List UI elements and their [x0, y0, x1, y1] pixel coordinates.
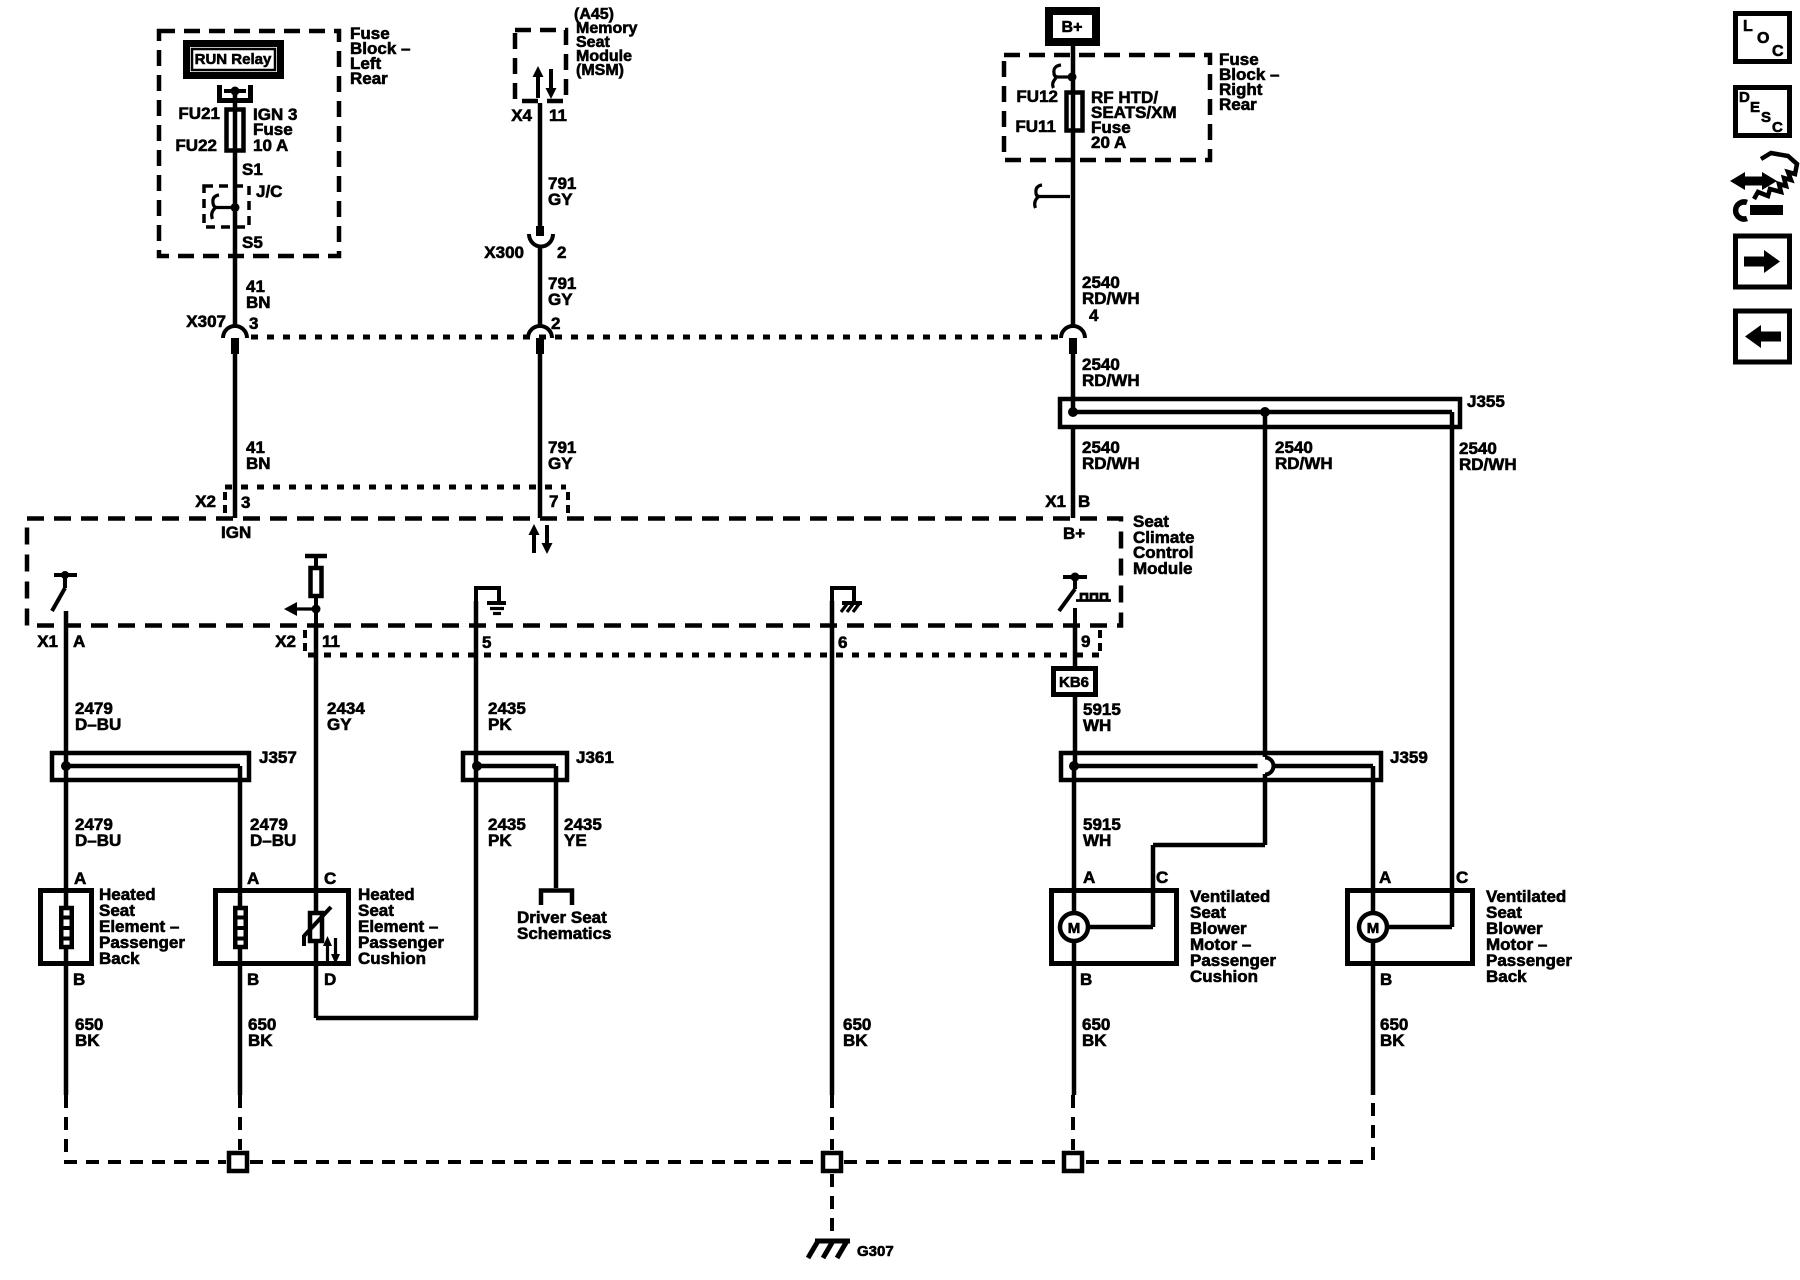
svg-text:Rear: Rear: [1219, 95, 1257, 114]
label IGN: [221, 523, 251, 542]
svg-text:D–BU: D–BU: [250, 831, 296, 850]
wire 650 BK element1: [75, 1015, 103, 1050]
svg-text:2: 2: [551, 314, 560, 333]
svg-text:J361: J361: [576, 748, 614, 767]
svg-text:9: 9: [1081, 632, 1090, 651]
nav box DESC: [1736, 88, 1790, 137]
svg-text:X1: X1: [1045, 492, 1066, 511]
wire 5915 WH lower (to motor A): [1074, 766, 1121, 912]
svg-text:O: O: [1757, 30, 1769, 47]
wire MSM X4-11: [511, 103, 576, 228]
wire 2540 RD/WH to J355: [1073, 352, 1140, 412]
relay output KB6 box: [1054, 626, 1096, 695]
svg-text:S1: S1: [242, 160, 263, 179]
wire S1 segment: [235, 152, 263, 256]
ventilated seat blower motor - passenger cushion (box): [1052, 891, 1177, 964]
ground bus dashed: motor2 drop: [1371, 1095, 1375, 1160]
svg-text:D: D: [324, 970, 336, 989]
svg-text:IGN: IGN: [221, 523, 251, 542]
svg-text:WH: WH: [1083, 716, 1111, 735]
label FU11: [1015, 117, 1056, 136]
svg-text:3: 3: [249, 314, 258, 333]
wire 2479 D-BU left (below J357): [75, 815, 121, 850]
label: Ventilated Seat Blower Motor - Passenger Cushion: [1190, 887, 1276, 986]
label FU21: [178, 104, 220, 123]
svg-text:J357: J357: [259, 748, 297, 767]
svg-text:A: A: [73, 632, 85, 651]
svg-text:GY: GY: [548, 454, 573, 473]
module internal ground at pin 5: [476, 588, 506, 626]
svg-text:B: B: [1380, 970, 1392, 989]
connector X2 pin 3 (module): [195, 487, 568, 514]
fuse block - left rear (dashed box): [159, 31, 339, 256]
svg-text:Cushion: Cushion: [1190, 967, 1258, 986]
wire element2 B lead: [238, 947, 243, 1095]
svg-text:FU21: FU21: [178, 104, 220, 123]
label FU22: [175, 136, 217, 155]
svg-text:4: 4: [1089, 306, 1099, 325]
wire 650 BK element2: [248, 1015, 276, 1050]
module pin row: X1 A: [37, 632, 85, 651]
nav box forward arrow: [1736, 236, 1790, 287]
lower hook terminal: [1035, 185, 1070, 208]
wire 650 BK motor1: [1074, 966, 1110, 1095]
wire 2435 YE to driver seat: [556, 766, 602, 888]
svg-text:RD/WH: RD/WH: [1459, 455, 1517, 474]
wire X1-A 2479 D-BU: [66, 611, 121, 906]
svg-text:BK: BK: [75, 1031, 100, 1050]
MSM bidirectional arrows: [533, 66, 557, 99]
wire 41 BN lower: [235, 352, 271, 518]
ground bus dashed segment 2: [250, 1160, 820, 1164]
motor M1: [1060, 912, 1153, 966]
nav box back arrow: [1736, 311, 1790, 362]
wire X2-11 2434 GY: [316, 626, 365, 1018]
label FU12: [1016, 87, 1058, 106]
svg-text:B: B: [73, 970, 85, 989]
flipchart hand icon: [1730, 153, 1797, 219]
motor M2: [1359, 912, 1452, 966]
ground bus dashed: pin6 drop: [830, 1095, 834, 1150]
wire B+ to fuse block: [1071, 46, 1076, 91]
svg-text:B+: B+: [1062, 19, 1083, 36]
svg-text:A: A: [74, 869, 86, 888]
ground junction square 2: [823, 1153, 841, 1171]
svg-text:D–BU: D–BU: [75, 831, 121, 850]
heater element symbol 1: [61, 908, 72, 947]
svg-text:Rear: Rear: [350, 69, 388, 88]
svg-text:X1: X1: [37, 632, 58, 651]
svg-text:A: A: [247, 869, 259, 888]
svg-text:11: 11: [322, 632, 340, 651]
svg-text:X2: X2: [195, 492, 216, 511]
ground bus dashed segment 3: [844, 1160, 1060, 1164]
label: Heated Seat Element - Passenger Back: [99, 885, 185, 968]
svg-text:B+: B+: [1063, 524, 1085, 543]
ground G307: [808, 1241, 894, 1260]
svg-text:6: 6: [838, 633, 847, 652]
module internal output arrow at X2-11: [284, 602, 321, 616]
svg-text:Back: Back: [99, 949, 140, 968]
svg-text:20 A: 20 A: [1091, 133, 1126, 152]
ground junction square 3: [1064, 1153, 1082, 1171]
svg-text:B: B: [1078, 492, 1090, 511]
off-page connector: driver seat schematics: [517, 891, 612, 944]
svg-text:C: C: [1456, 868, 1468, 887]
wire pin6 650 BK: [832, 601, 871, 1095]
svg-text:B: B: [1080, 970, 1092, 989]
module internal resistor at X2-11: [305, 556, 327, 626]
svg-text:GY: GY: [548, 190, 573, 209]
svg-text:FU22: FU22: [175, 136, 217, 155]
svg-text:C: C: [324, 869, 336, 888]
wire pin5 2435 PK: [476, 601, 526, 1018]
svg-text:E: E: [1750, 99, 1760, 116]
wire 791 GY lower: [540, 352, 576, 518]
ventilated seat blower motor - passenger back (box): [1348, 891, 1473, 964]
svg-text:D: D: [1739, 89, 1750, 106]
thermistor arrows: [323, 936, 340, 964]
svg-text:Module: Module: [1133, 559, 1193, 578]
wire relay to fuse: [233, 93, 238, 108]
wire 5915 WH upper: [1075, 695, 1121, 766]
ground lead to G307: [830, 1174, 834, 1238]
svg-text:C: C: [1772, 43, 1784, 60]
svg-text:X2: X2: [275, 632, 296, 651]
memory seat module MSM (dashed box): [515, 30, 566, 101]
ground bus dashed segment 4: [1086, 1160, 1371, 1164]
module pin row: X2 11: [275, 630, 340, 652]
svg-text:RUN Relay: RUN Relay: [195, 51, 272, 68]
wire 2479 D-BU right branch: [240, 766, 296, 906]
svg-text:X300: X300: [484, 243, 524, 262]
heated seat element - passenger back (box): [41, 891, 92, 964]
module pin 7 bidirectional arrows: [529, 524, 553, 554]
svg-text:M: M: [1068, 920, 1081, 937]
wire J355 right drop 2540 RD/WH: [1452, 412, 1517, 927]
label: Fuse Block - Left Rear: [350, 24, 410, 88]
svg-text:A: A: [1083, 868, 1095, 887]
splice pack J361: [463, 748, 614, 780]
crossing wire hop over J359: [1153, 758, 1274, 928]
heater element symbol 2: [235, 908, 246, 947]
pin letter row A/C: [74, 868, 1468, 888]
connector X2 dotted line (lower): [308, 653, 1100, 658]
splice pack J355: [1060, 392, 1505, 427]
module connector X1 pin B: [1045, 492, 1090, 511]
fuse FU12/FU11 : RF HTD/SEATS/XM Fuse 20 A: [1067, 91, 1083, 132]
fuse block upper hook terminal: [1053, 65, 1077, 88]
svg-text:J/C: J/C: [256, 182, 282, 201]
fuse FU21/FU22 : IGN 3 Fuse 10 A: [227, 108, 244, 152]
svg-text:7: 7: [549, 492, 558, 511]
svg-text:KB6: KB6: [1059, 674, 1089, 691]
svg-text:X4: X4: [511, 106, 532, 125]
relay K: RUN Relay (double-border box): [187, 44, 281, 76]
power feed B+ box: [1049, 11, 1096, 42]
connector X307 dotted line: [251, 335, 1059, 340]
splice pack J357: [52, 748, 297, 780]
svg-text:L: L: [1743, 18, 1753, 35]
svg-text:BK: BK: [843, 1031, 868, 1050]
pin letter row B/D: [73, 970, 1392, 989]
ground junction square 1: [229, 1153, 247, 1171]
svg-text:Cushion: Cushion: [358, 949, 426, 968]
label RF HTD/ SEATS/XM Fuse 20 A: [1091, 88, 1177, 152]
junction connector J/C (dashed box): [204, 182, 282, 227]
thermistor symbol (C-D): [304, 907, 331, 946]
svg-text:3: 3: [241, 493, 250, 512]
label: Ventilated Seat Blower Motor - Passenger Back: [1486, 887, 1572, 986]
module internal switch with resistor at pin 9: [1059, 573, 1111, 627]
svg-text:J359: J359: [1390, 748, 1428, 767]
in-line connector X300 pin 2: [484, 226, 566, 262]
svg-text:FU11: FU11: [1015, 117, 1056, 136]
svg-text:YE: YE: [564, 831, 587, 850]
svg-text:BN: BN: [246, 454, 271, 473]
svg-text:S5: S5: [242, 233, 263, 252]
wire J355 left drop to module B+: [1073, 427, 1140, 518]
nav box LOC: [1736, 14, 1790, 62]
svg-text:X307: X307: [186, 312, 226, 331]
wire J355 middle drop 2540 RD/WH: [1265, 412, 1333, 757]
label (A45) Memory Seat Module (MSM): [574, 6, 637, 79]
module pin 6 label: [838, 633, 847, 652]
wire 41 BN upper: [235, 256, 271, 327]
wire J359 right drop: [1371, 766, 1376, 912]
svg-text:RD/WH: RD/WH: [1082, 371, 1140, 390]
svg-text:G307: G307: [857, 1243, 894, 1260]
svg-text:Schematics: Schematics: [517, 924, 612, 943]
heated seat element - passenger cushion (box): [216, 891, 349, 964]
ground bus dashed: element2 drop: [238, 1095, 242, 1150]
svg-text:11: 11: [549, 106, 567, 125]
svg-text:5: 5: [482, 633, 491, 652]
svg-text:(MSM): (MSM): [576, 62, 624, 79]
label: Seat Climate Control Module: [1133, 512, 1194, 578]
svg-text:GY: GY: [548, 290, 573, 309]
label: Fuse Block - Right Rear: [1219, 50, 1279, 114]
svg-text:FU12: FU12: [1016, 87, 1058, 106]
label 2540 RD/WH (1): [1082, 273, 1140, 308]
svg-text:RD/WH: RD/WH: [1275, 454, 1333, 473]
wire 791 GY mid: [540, 245, 576, 327]
ground bus dashed: element1 drop: [64, 1095, 226, 1162]
seat climate control module (dashed box): [27, 519, 1121, 626]
svg-text:10 A: 10 A: [253, 136, 288, 155]
svg-text:B: B: [247, 970, 259, 989]
svg-text:D–BU: D–BU: [75, 715, 121, 734]
module internal chassis ground at pin 6: [832, 588, 862, 626]
svg-text:BK: BK: [1380, 1031, 1405, 1050]
module internal switch at X1-A: [52, 571, 77, 611]
relay terminal cup: [220, 85, 251, 101]
wire below right fuse block: [1071, 132, 1076, 327]
fuse block - right rear (dashed box): [1004, 55, 1210, 160]
connector X307 pin 2 (arc + stub): [528, 314, 560, 354]
wire 2435 PK (below J361): [488, 815, 526, 850]
ground bus dashed: motor1 drop: [1071, 1095, 1075, 1150]
svg-text:GY: GY: [327, 715, 352, 734]
label S5: [242, 233, 263, 252]
svg-text:S: S: [1761, 109, 1771, 126]
splice pack J359: [1061, 748, 1428, 780]
module pin 5 label: [482, 633, 491, 652]
svg-text:Back: Back: [1486, 967, 1527, 986]
label B+ (module pin): [1063, 524, 1085, 543]
connector X307 pin 3 (arc + stub): [186, 312, 258, 354]
svg-text:A: A: [1379, 868, 1391, 887]
svg-text:PK: PK: [488, 831, 512, 850]
svg-text:C: C: [1772, 119, 1783, 136]
svg-text:J355: J355: [1467, 392, 1505, 411]
svg-text:BN: BN: [246, 293, 271, 312]
svg-text:C: C: [1156, 868, 1168, 887]
wire element1 B lead: [64, 947, 69, 1095]
wire 650 BK motor2: [1373, 966, 1408, 1095]
connector X307 pin 4 (arc + stub): [1061, 306, 1099, 354]
svg-text:M: M: [1367, 920, 1380, 937]
svg-text:PK: PK: [488, 715, 512, 734]
label: Heated Seat Element - Passenger Cushion: [358, 885, 444, 968]
svg-text:BK: BK: [1082, 1031, 1107, 1050]
J/C hook symbol: [212, 195, 240, 219]
svg-text:BK: BK: [248, 1031, 273, 1050]
svg-text:2: 2: [557, 243, 566, 262]
module pin 9 label: [1081, 630, 1100, 652]
svg-text:WH: WH: [1083, 831, 1111, 850]
wire pin D to pin 5 link: [316, 1016, 478, 1021]
module pin 7 label: [549, 492, 558, 511]
label IGN 3 Fuse 10 A: [253, 105, 297, 155]
svg-text:RD/WH: RD/WH: [1082, 454, 1140, 473]
